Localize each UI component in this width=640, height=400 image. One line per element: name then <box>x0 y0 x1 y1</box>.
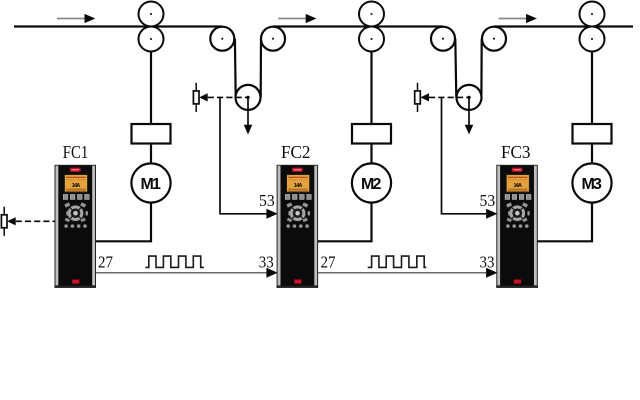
web vertical segment up from dancer 1 (right) <box>260 39 262 98</box>
wire web line segment 1 <box>14 25 222 27</box>
idler roller 1b <box>261 27 285 51</box>
nip roller pair 2 <box>359 2 384 52</box>
gearbox 1 <box>132 124 171 144</box>
idler roller 2a <box>431 27 455 51</box>
motor cable FC2 to M2 <box>317 203 372 242</box>
svg-text:M2: M2 <box>361 176 382 193</box>
shaft gearbox 3 to motor M3 <box>591 144 593 164</box>
idler roller 1a <box>210 27 234 51</box>
web vertical segment down to dancer 1 (left) <box>234 39 237 98</box>
shaft gearbox 1 to motor M1 <box>150 144 152 164</box>
web direction arrow 1 <box>57 14 95 23</box>
svg-text:FC2: FC2 <box>281 142 311 162</box>
motor cable FC3 to M3 <box>537 203 592 242</box>
shaft from nip pair 1 to gearbox 1 <box>150 52 152 125</box>
motor cable FC1 to M1 <box>95 203 151 242</box>
pulse train symbol 1 <box>145 256 204 267</box>
frequency converter FC2 <box>277 165 319 288</box>
svg-text:FC1: FC1 <box>63 142 89 162</box>
dancer 2 force arrow (down) <box>465 97 474 134</box>
nip roller pair 1 <box>139 2 164 52</box>
svg-text:27: 27 <box>98 253 113 272</box>
svg-text:33: 33 <box>259 252 274 271</box>
svg-text:M1: M1 <box>140 176 161 193</box>
feedback wire pot P1 to FC2 terminal 53 <box>220 97 267 213</box>
svg-text:33: 33 <box>480 252 495 271</box>
shaft from nip pair 3 to gearbox 3 <box>591 52 593 125</box>
dancer 1 force arrow (down) <box>244 97 253 134</box>
web direction arrow 3 <box>499 14 537 23</box>
gearbox 2 <box>352 124 391 144</box>
dashed wire pot P2 to dancer 2 pivot <box>429 96 469 98</box>
frequency converter FC1 <box>55 165 97 288</box>
dashed setpoint wire to FC1 <box>16 220 55 222</box>
motor M1 <box>131 163 170 202</box>
motor M2 <box>352 163 391 202</box>
shaft gearbox 2 to motor M2 <box>370 144 372 164</box>
feedback wire pot P2 to FC3 terminal 53 <box>442 97 487 213</box>
svg-text:27: 27 <box>321 253 336 272</box>
web direction arrow 2 <box>278 14 316 23</box>
motor M3 <box>572 163 611 202</box>
svg-text:53: 53 <box>259 191 275 210</box>
svg-text:53: 53 <box>480 191 496 210</box>
idler roller 2b <box>482 27 506 51</box>
dancer roller 2 <box>457 85 482 110</box>
web vertical segment down to dancer 2 (left) <box>455 39 456 98</box>
frequency converter FC3 <box>496 165 538 288</box>
dashed wire pot P1 to dancer 1 pivot <box>208 96 248 98</box>
svg-text:FC3: FC3 <box>501 142 531 162</box>
gearbox 3 <box>573 124 612 144</box>
dancer roller 1 <box>236 85 261 110</box>
nip roller pair 3 <box>580 2 605 52</box>
pulse train symbol 2 <box>368 256 427 267</box>
dancer potentiometer P2 <box>415 83 429 112</box>
shaft from nip pair 2 to gearbox 2 <box>370 52 372 125</box>
pulse output wire FC2 27 to FC3 33 <box>317 272 486 274</box>
wire web line segment 2 <box>273 25 443 27</box>
setpoint potentiometer P0 <box>1 207 15 236</box>
dancer potentiometer P1 <box>193 83 207 112</box>
web vertical segment up from dancer 2 (right) <box>480 39 483 98</box>
svg-text:M3: M3 <box>581 176 602 193</box>
wire web line segment 3 <box>494 25 633 27</box>
pulse output wire FC1 27 to FC2 33 <box>96 272 267 274</box>
